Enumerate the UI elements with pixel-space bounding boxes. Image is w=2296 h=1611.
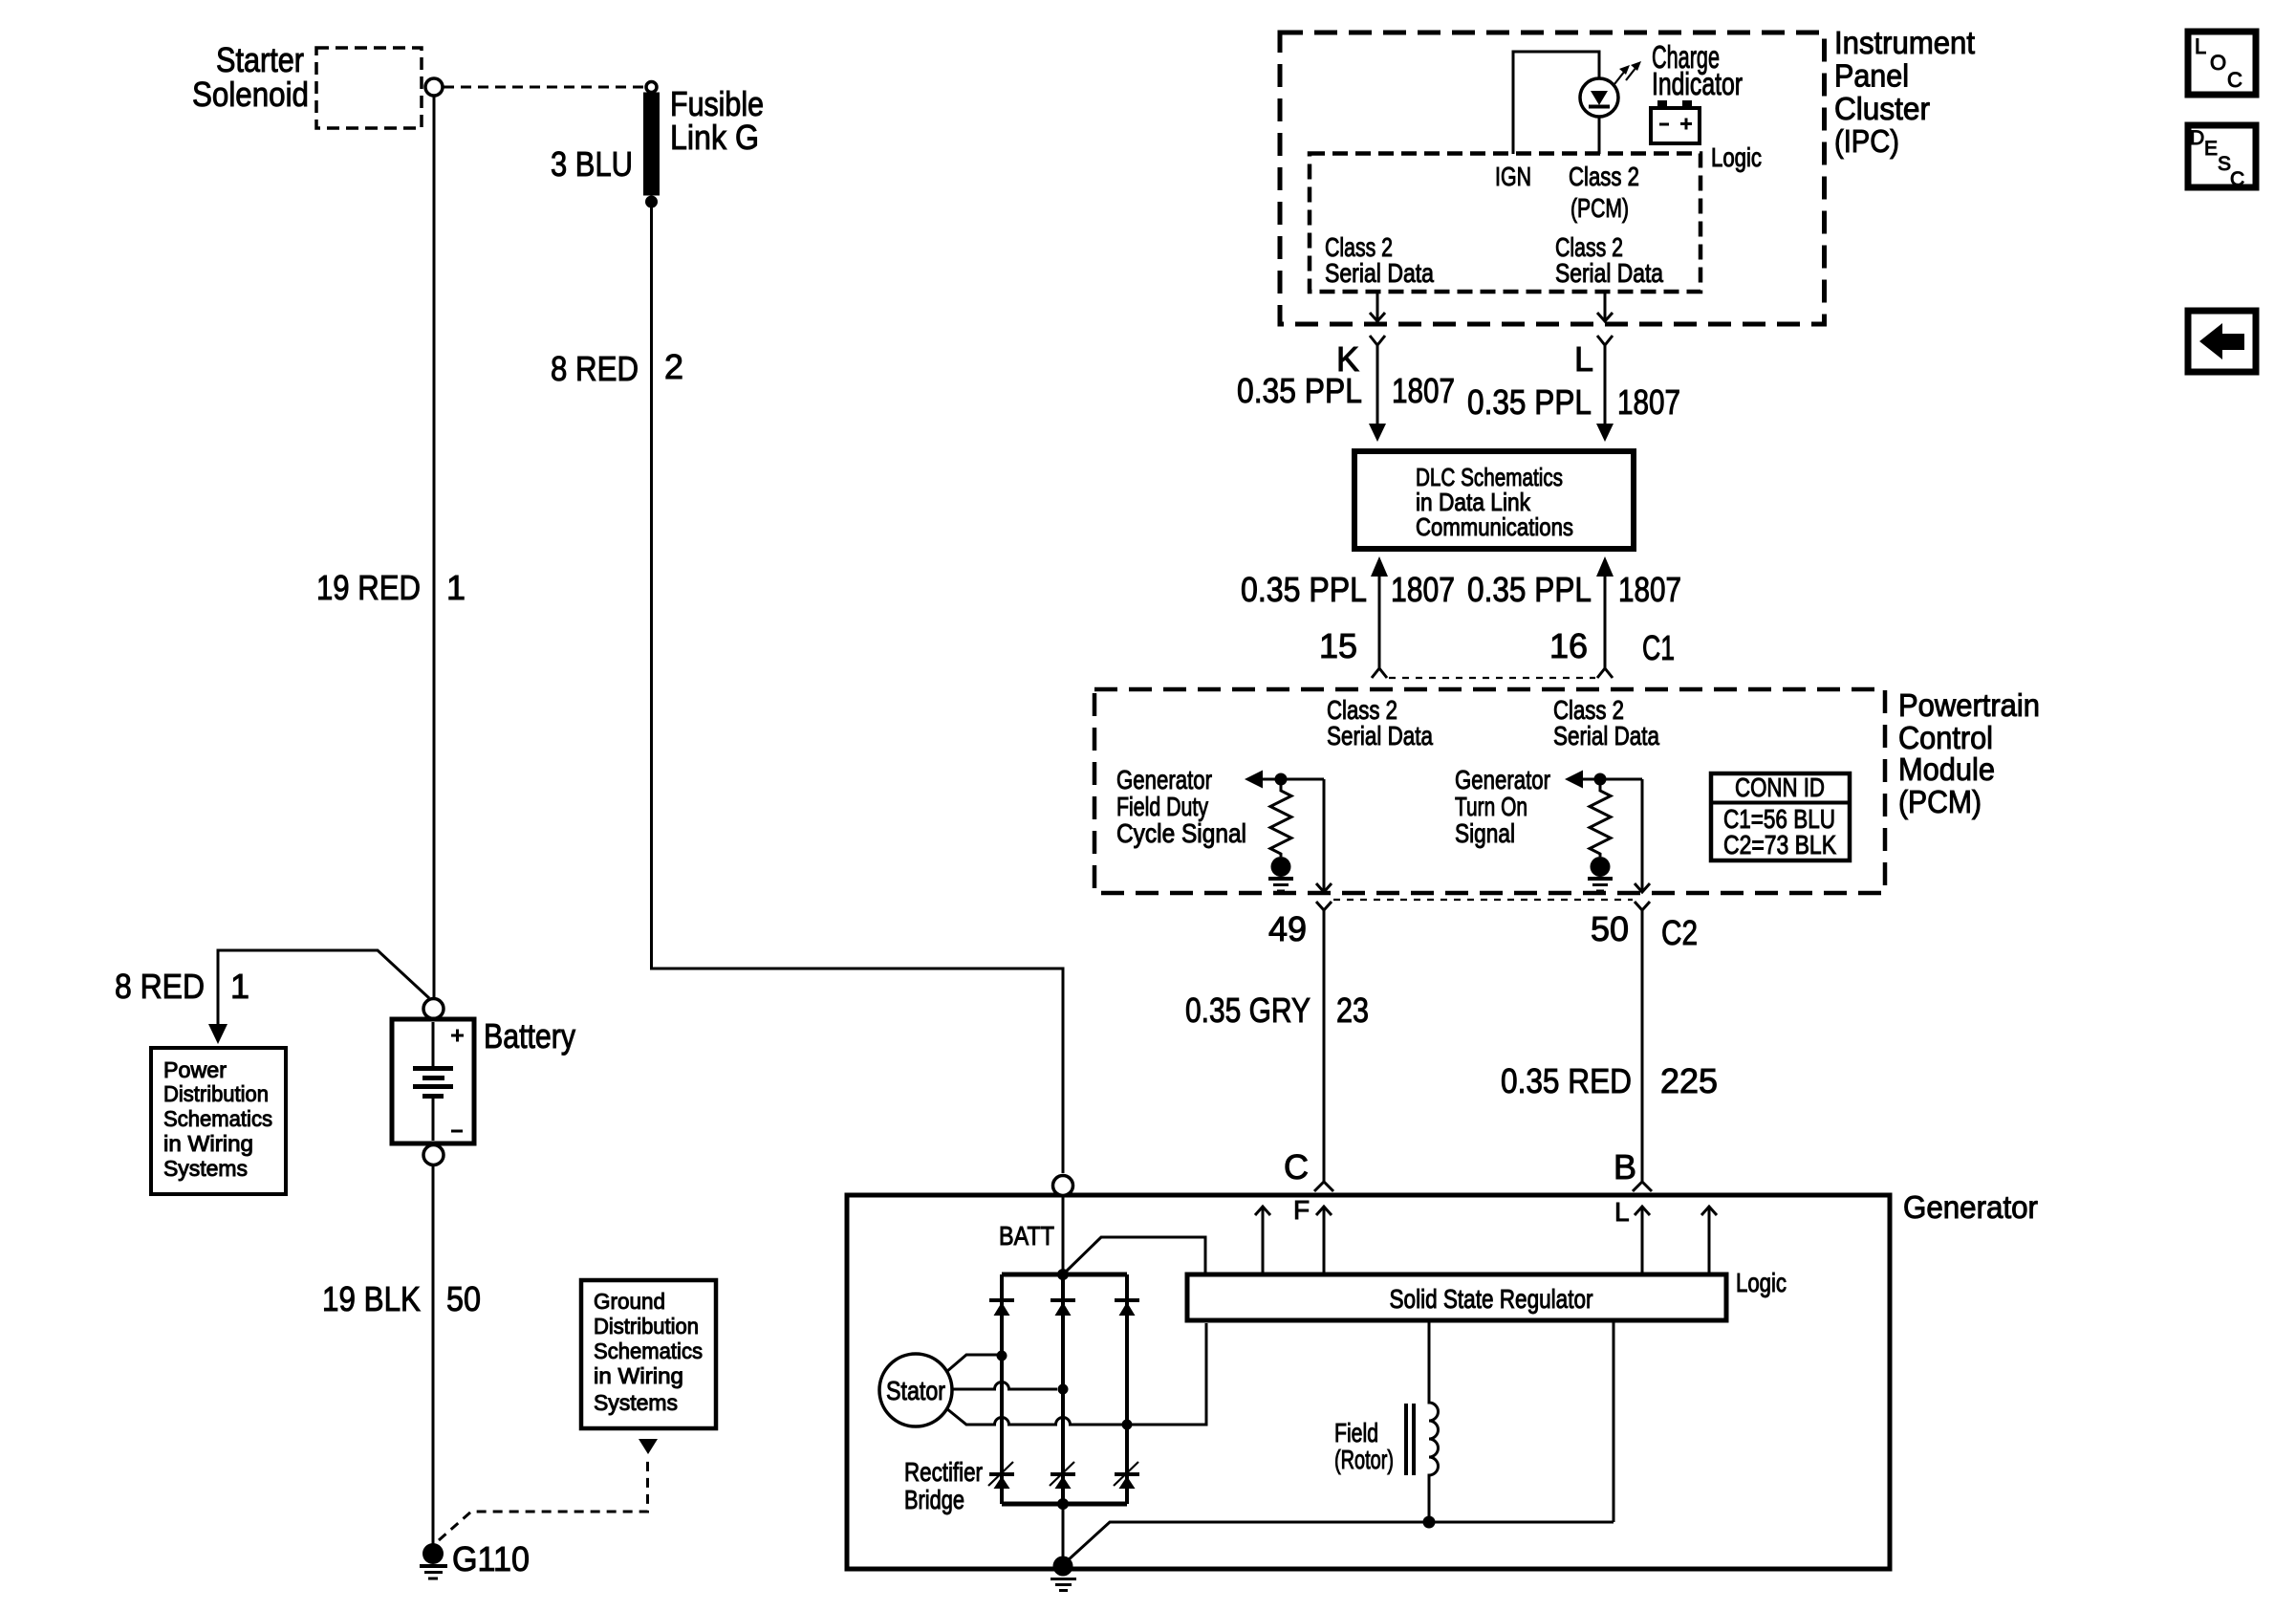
svg-text:0.35 PPL: 0.35 PPL [1241, 570, 1367, 609]
svg-text:Module: Module [1898, 751, 1995, 787]
rectifier column 3 [1125, 1274, 1129, 1504]
connector 49 below PCM [1316, 902, 1332, 910]
svg-text:Generator: Generator [1455, 765, 1550, 795]
wire PCM 15 up to DLC box [1378, 576, 1381, 668]
internal signal arrow right [1565, 771, 1583, 789]
icon box DESC [2188, 125, 2256, 190]
svg-text:1: 1 [446, 568, 466, 607]
svg-text:Generator: Generator [1116, 765, 1212, 795]
wire field return up to regulator [1613, 1320, 1615, 1522]
svg-text:0.35 GRY: 0.35 GRY [1185, 991, 1310, 1030]
svg-text:8 RED: 8 RED [551, 349, 639, 388]
wire PCM 16 up to DLC box [1604, 576, 1607, 668]
wire BATT down to rectifier [1062, 1195, 1065, 1274]
svg-text:C2: C2 [1661, 913, 1698, 952]
wire battery to ground G110 [432, 1165, 435, 1545]
svg-text:L: L [1574, 339, 1593, 379]
svg-text:Cluster: Cluster [1834, 91, 1930, 126]
svg-text:(Rotor): (Rotor) [1334, 1445, 1394, 1474]
svg-text:Distribution: Distribution [163, 1081, 269, 1106]
svg-text:in Wiring: in Wiring [163, 1131, 253, 1156]
svg-text:Systems: Systems [163, 1156, 248, 1181]
svg-text:0.35 PPL: 0.35 PPL [1467, 570, 1592, 609]
svg-text:IGN: IGN [1495, 162, 1531, 191]
rectifier column 1 [1000, 1274, 1004, 1504]
wire branch 8 RED to power distribution [218, 950, 429, 1025]
svg-text:in Wiring: in Wiring [594, 1363, 683, 1388]
svg-text:O: O [2210, 51, 2226, 75]
svg-text:0.35 PPL: 0.35 PPL [1467, 382, 1592, 422]
wire fusible link down, right, down to generator BATT [652, 207, 1064, 1173]
wire pin 50 down with chevron arrow [1641, 779, 1644, 892]
LED light emission arrows [1614, 61, 1641, 84]
field core lines [1404, 1404, 1408, 1475]
lower avalanche diode col1 [988, 1462, 1014, 1489]
svg-text:D: D [2190, 127, 2204, 149]
icon box LOC [2188, 32, 2256, 95]
upper diode col2 [1051, 1300, 1075, 1316]
svg-text:49: 49 [1268, 909, 1307, 948]
svg-text:Schematics: Schematics [594, 1339, 703, 1363]
svg-text:0.35 RED: 0.35 RED [1501, 1061, 1632, 1100]
ground distribution schematics box [581, 1280, 716, 1428]
svg-text:Power: Power [163, 1057, 227, 1082]
dashed ground reference wire to ground distribution box [439, 1457, 648, 1540]
svg-text:2: 2 [664, 347, 683, 386]
upper diode col3 [1115, 1300, 1139, 1316]
IPC exit wire K with chevron arrow [1376, 292, 1379, 319]
DLC schematics box [1354, 451, 1634, 549]
triangle connector at ground distribution box [639, 1439, 658, 1454]
small terminal circle at fusible link top [646, 82, 657, 93]
svg-text:CONN ID: CONN ID [1735, 773, 1825, 802]
svg-text:Bridge: Bridge [904, 1485, 964, 1514]
wire pin 49 down with chevron arrow [1323, 779, 1326, 892]
svg-text:23: 23 [1336, 991, 1369, 1030]
svg-text:225: 225 [1660, 1061, 1718, 1100]
icon box back-arrow [2188, 311, 2256, 372]
svg-text:Communications: Communications [1416, 512, 1573, 541]
ground at right resistor [1591, 857, 1611, 877]
svg-text:(IPC): (IPC) [1834, 123, 1899, 159]
instrument panel cluster dashed box [1280, 33, 1825, 324]
svg-text:19 RED: 19 RED [316, 568, 421, 607]
svg-text:C2=73 BLK: C2=73 BLK [1723, 830, 1836, 860]
svg-text:Distribution: Distribution [594, 1314, 699, 1339]
LED cathode bar [1589, 105, 1610, 109]
svg-text:15: 15 [1319, 626, 1357, 665]
connector 16 at PCM [1597, 668, 1613, 678]
svg-text:8 RED: 8 RED [115, 967, 205, 1006]
regulator pin arrow F [1316, 1207, 1332, 1274]
regulator pin arrow 1 [1255, 1207, 1270, 1274]
svg-text:1807: 1807 [1392, 371, 1455, 410]
svg-text:G110: G110 [452, 1539, 530, 1578]
regulator pin arrow L [1635, 1207, 1650, 1274]
wire K to DLC box [1376, 345, 1379, 425]
powertrain control module dashed box [1094, 689, 1885, 893]
junction dot right resistor [1594, 773, 1607, 786]
stator circle [879, 1354, 952, 1426]
wire 49 to generator C [1323, 910, 1326, 1182]
lower avalanche diode col3 [1114, 1462, 1139, 1489]
stator phase 1 wire [946, 1355, 1002, 1372]
svg-text:Stator: Stator [886, 1376, 945, 1405]
svg-text:19 BLK: 19 BLK [322, 1279, 421, 1318]
svg-text:Logic: Logic [1736, 1268, 1787, 1297]
svg-text:Indicator: Indicator [1652, 66, 1743, 101]
svg-text:C: C [1284, 1147, 1309, 1186]
field rotor coil [1429, 1320, 1439, 1522]
generator ground symbol [1051, 1578, 1076, 1580]
svg-text:1: 1 [230, 967, 249, 1006]
svg-text:1807: 1807 [1391, 570, 1455, 609]
regulator pin arrow 4 [1701, 1207, 1717, 1274]
svg-text:(PCM): (PCM) [1898, 784, 1982, 819]
svg-text:B: B [1614, 1147, 1636, 1186]
wire 50 to generator B [1641, 910, 1644, 1182]
battery + and - marks [451, 1034, 464, 1037]
arrowhead into power distribution box [208, 1024, 227, 1044]
svg-text:Systems: Systems [594, 1390, 678, 1415]
battery icon in IPC [1651, 100, 1700, 143]
rectifier bridge bottom rail [1002, 1502, 1127, 1507]
svg-text:Serial Data: Serial Data [1325, 258, 1434, 288]
wire main battery feed from solenoid [433, 96, 436, 998]
svg-text:Link G: Link G [670, 118, 759, 157]
svg-text:L: L [2195, 34, 2206, 58]
connector 15 at PCM [1372, 668, 1387, 678]
rectifier bridge top rail [1002, 1273, 1127, 1277]
svg-text:Field: Field [1334, 1418, 1378, 1448]
connector L below IPC [1597, 336, 1613, 345]
svg-text:Cycle Signal: Cycle Signal [1116, 818, 1246, 848]
battery negative terminal circle [423, 1145, 444, 1165]
svg-text:3 BLU: 3 BLU [551, 144, 633, 184]
svg-text:L: L [1614, 1197, 1630, 1227]
CONN ID table box [1711, 773, 1850, 860]
svg-text:Solenoid: Solenoid [192, 75, 309, 114]
svg-text:Battery: Battery [484, 1016, 575, 1056]
svg-text:C: C [2227, 68, 2242, 92]
svg-text:BATT: BATT [999, 1221, 1054, 1251]
junction dot below fusible link [645, 196, 658, 208]
svg-text:Control: Control [1898, 720, 1993, 755]
svg-text:E: E [2204, 138, 2218, 160]
svg-text:Starter: Starter [216, 40, 304, 79]
battery cell symbol [432, 1022, 435, 1066]
junction dot field return [1423, 1516, 1436, 1529]
terminal circle at starter solenoid [425, 78, 443, 96]
generator box [847, 1195, 1890, 1569]
junction dot bottom rail [1057, 1498, 1069, 1510]
svg-text:Panel: Panel [1834, 58, 1909, 94]
svg-text:Logic: Logic [1711, 142, 1762, 172]
fusible link G bar [643, 93, 660, 196]
svg-text:16: 16 [1549, 626, 1588, 665]
svg-text:Ground: Ground [594, 1289, 665, 1314]
svg-text:1807: 1807 [1617, 382, 1680, 422]
dashed connector line between pins 15 and 16 [1389, 677, 1595, 679]
svg-text:(PCM): (PCM) [1570, 193, 1629, 223]
resistor (field duty pullup) [1270, 785, 1291, 857]
connector B at generator [1633, 1182, 1652, 1191]
dashed wire solenoid to fusible link [444, 86, 644, 89]
battery box [392, 1019, 474, 1143]
connector K below IPC [1370, 336, 1385, 345]
junction dot left resistor [1275, 773, 1288, 786]
svg-text:Class 2: Class 2 [1569, 162, 1639, 191]
wire rectifier to generator case ground [1062, 1504, 1065, 1558]
svg-text:0.35 PPL: 0.35 PPL [1237, 371, 1362, 410]
svg-text:Serial Data: Serial Data [1327, 721, 1433, 751]
solid state regulator box [1187, 1274, 1726, 1320]
starter solenoid dashed box [316, 48, 422, 128]
ground at left resistor [1271, 857, 1291, 877]
svg-text:Powertrain: Powertrain [1898, 687, 2040, 723]
svg-text:C: C [2230, 168, 2244, 190]
IPC exit wire L with chevron arrow [1604, 292, 1607, 319]
svg-text:50: 50 [446, 1279, 481, 1318]
junction dot BATT rail [1057, 1269, 1069, 1280]
stator phase 3 wire with hops [946, 1323, 1206, 1425]
svg-text:Serial Data: Serial Data [1553, 721, 1659, 751]
svg-text:Serial Data: Serial Data [1555, 258, 1663, 288]
resistor (turn on pullup) [1590, 785, 1611, 857]
connector C at generator [1314, 1182, 1333, 1191]
lower avalanche diode col2 [1050, 1462, 1075, 1489]
wire L to DLC box [1604, 345, 1607, 425]
ground G110 symbol [422, 1543, 444, 1564]
svg-text:S: S [2218, 153, 2231, 175]
wire ground to field return [1067, 1522, 1614, 1561]
IPC logic inner dashed box [1310, 154, 1700, 293]
BATT terminal circle on generator [1053, 1176, 1073, 1196]
svg-text:F: F [1293, 1195, 1310, 1225]
connector 50 below PCM [1635, 902, 1650, 910]
wire IGN and charge indicator feed [1513, 52, 1599, 154]
generator ground dot [1053, 1557, 1073, 1577]
svg-text:Signal: Signal [1455, 818, 1515, 848]
svg-text:C1: C1 [1642, 628, 1675, 667]
svg-text:Field Duty: Field Duty [1116, 792, 1208, 821]
svg-text:50: 50 [1591, 909, 1629, 948]
svg-text:Solid State Regulator: Solid State Regulator [1390, 1284, 1593, 1314]
battery positive terminal circle [423, 999, 444, 1019]
svg-text:Rectifier: Rectifier [904, 1457, 983, 1487]
svg-text:1807: 1807 [1618, 570, 1681, 609]
wire BATT junction to regulator [1063, 1237, 1205, 1274]
svg-text:Schematics: Schematics [163, 1106, 272, 1131]
dashed connector line between pins 49 and 50 [1333, 899, 1633, 901]
charge indicator LED circle [1580, 78, 1618, 117]
rectifier column 2 [1061, 1274, 1065, 1504]
svg-text:Turn On: Turn On [1455, 792, 1527, 821]
svg-text:Instrument: Instrument [1834, 25, 1975, 60]
power distribution schematics box [151, 1048, 286, 1194]
svg-text:Generator: Generator [1903, 1189, 2038, 1225]
internal signal arrow left [1245, 771, 1263, 789]
upper diode col1 [989, 1300, 1014, 1316]
stator phase 2 wire with hop [952, 1382, 1057, 1390]
LED diode triangle [1591, 91, 1608, 105]
